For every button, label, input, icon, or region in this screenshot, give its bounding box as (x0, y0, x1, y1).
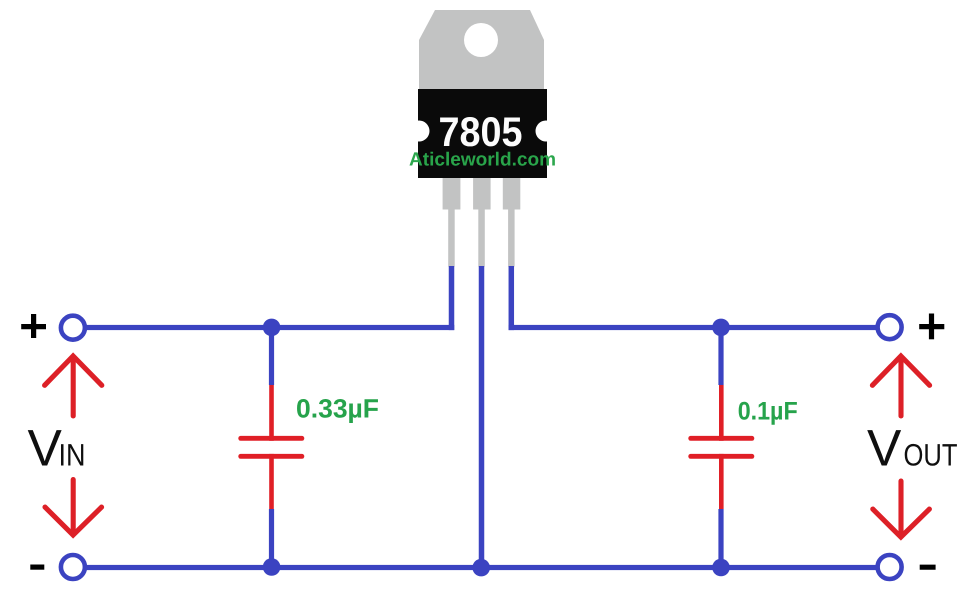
svg-text:OUT: OUT (904, 438, 958, 473)
svg-text:Aticleworld.com: Aticleworld.com (409, 150, 556, 171)
svg-text:IN: IN (59, 438, 86, 473)
svg-text:0.1µF: 0.1µF (738, 398, 798, 426)
svg-text:V: V (867, 419, 902, 477)
svg-text:0.33µF: 0.33µF (296, 393, 379, 423)
svg-text:7805: 7805 (439, 108, 523, 155)
svg-text:V: V (28, 419, 63, 477)
